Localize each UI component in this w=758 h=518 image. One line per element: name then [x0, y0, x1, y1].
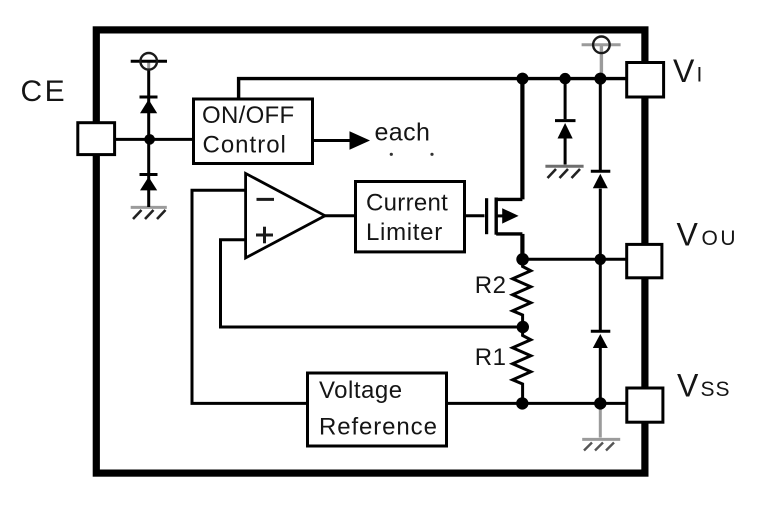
svg-text:Control: Control: [203, 132, 287, 159]
svg-text:R1: R1: [475, 344, 507, 371]
svg-text:Voltage: Voltage: [319, 377, 403, 404]
svg-text:OU: OU: [702, 227, 739, 250]
svg-text:Limiter: Limiter: [366, 219, 443, 246]
svg-text:R2: R2: [475, 272, 507, 299]
svg-text:each: each: [375, 119, 431, 147]
svg-text:V: V: [677, 368, 699, 404]
svg-text:SS: SS: [701, 378, 731, 401]
svg-text:CE: CE: [21, 75, 68, 108]
svg-text:I: I: [697, 64, 703, 87]
svg-text:V: V: [673, 53, 695, 89]
svg-text:V: V: [677, 217, 699, 253]
svg-text:Reference: Reference: [319, 414, 438, 441]
svg-text:Current: Current: [366, 190, 448, 217]
svg-text:ON/OFF: ON/OFF: [202, 102, 294, 129]
